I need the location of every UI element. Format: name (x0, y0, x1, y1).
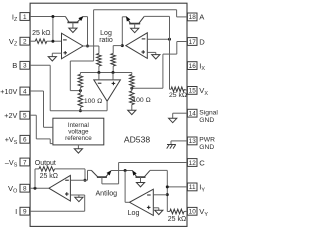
svg-text:ratio: ratio (99, 37, 113, 44)
svg-text:Signal: Signal (199, 110, 218, 117)
svg-text:Output: Output (35, 160, 56, 167)
svg-text:15: 15 (189, 88, 197, 95)
svg-text:+2V: +2V (4, 111, 17, 120)
svg-text:25 kΩ: 25 kΩ (169, 92, 187, 99)
svg-text:I: I (15, 207, 17, 216)
svg-text:D: D (199, 37, 205, 46)
svg-text:14: 14 (189, 111, 197, 118)
svg-text:25 kΩ: 25 kΩ (40, 173, 58, 180)
svg-text:25 kΩ: 25 kΩ (32, 30, 50, 37)
svg-text:AD538: AD538 (124, 134, 150, 144)
svg-text:reference: reference (65, 135, 92, 142)
svg-text:5: 5 (23, 113, 27, 120)
svg-text:12: 12 (189, 160, 197, 167)
svg-text:100 Ω: 100 Ω (84, 98, 102, 105)
svg-text:+10V: +10V (0, 87, 17, 96)
svg-text:100 Ω: 100 Ω (132, 97, 150, 104)
svg-text:PWR: PWR (199, 137, 215, 144)
svg-text:16: 16 (189, 63, 197, 70)
svg-text:25 kΩ: 25 kΩ (168, 216, 186, 223)
svg-text:3: 3 (23, 63, 27, 70)
svg-text:17: 17 (189, 39, 197, 46)
svg-text:B: B (12, 61, 17, 70)
svg-text:Log: Log (100, 30, 112, 37)
svg-text:Log: Log (128, 209, 140, 217)
svg-text:7: 7 (23, 159, 27, 166)
svg-text:GND: GND (199, 144, 214, 151)
svg-text:10: 10 (189, 209, 197, 216)
svg-text:13: 13 (189, 138, 197, 145)
svg-text:6: 6 (23, 137, 27, 144)
svg-text:Antilog: Antilog (95, 189, 117, 197)
svg-text:9: 9 (23, 209, 27, 216)
svg-text:4: 4 (23, 88, 27, 95)
svg-text:18: 18 (189, 14, 197, 21)
svg-text:GND: GND (199, 117, 214, 124)
svg-text:2: 2 (23, 39, 27, 46)
svg-text:1: 1 (23, 14, 27, 21)
svg-text:C: C (199, 158, 205, 167)
svg-text:8: 8 (23, 186, 27, 193)
svg-text:11: 11 (189, 184, 196, 191)
